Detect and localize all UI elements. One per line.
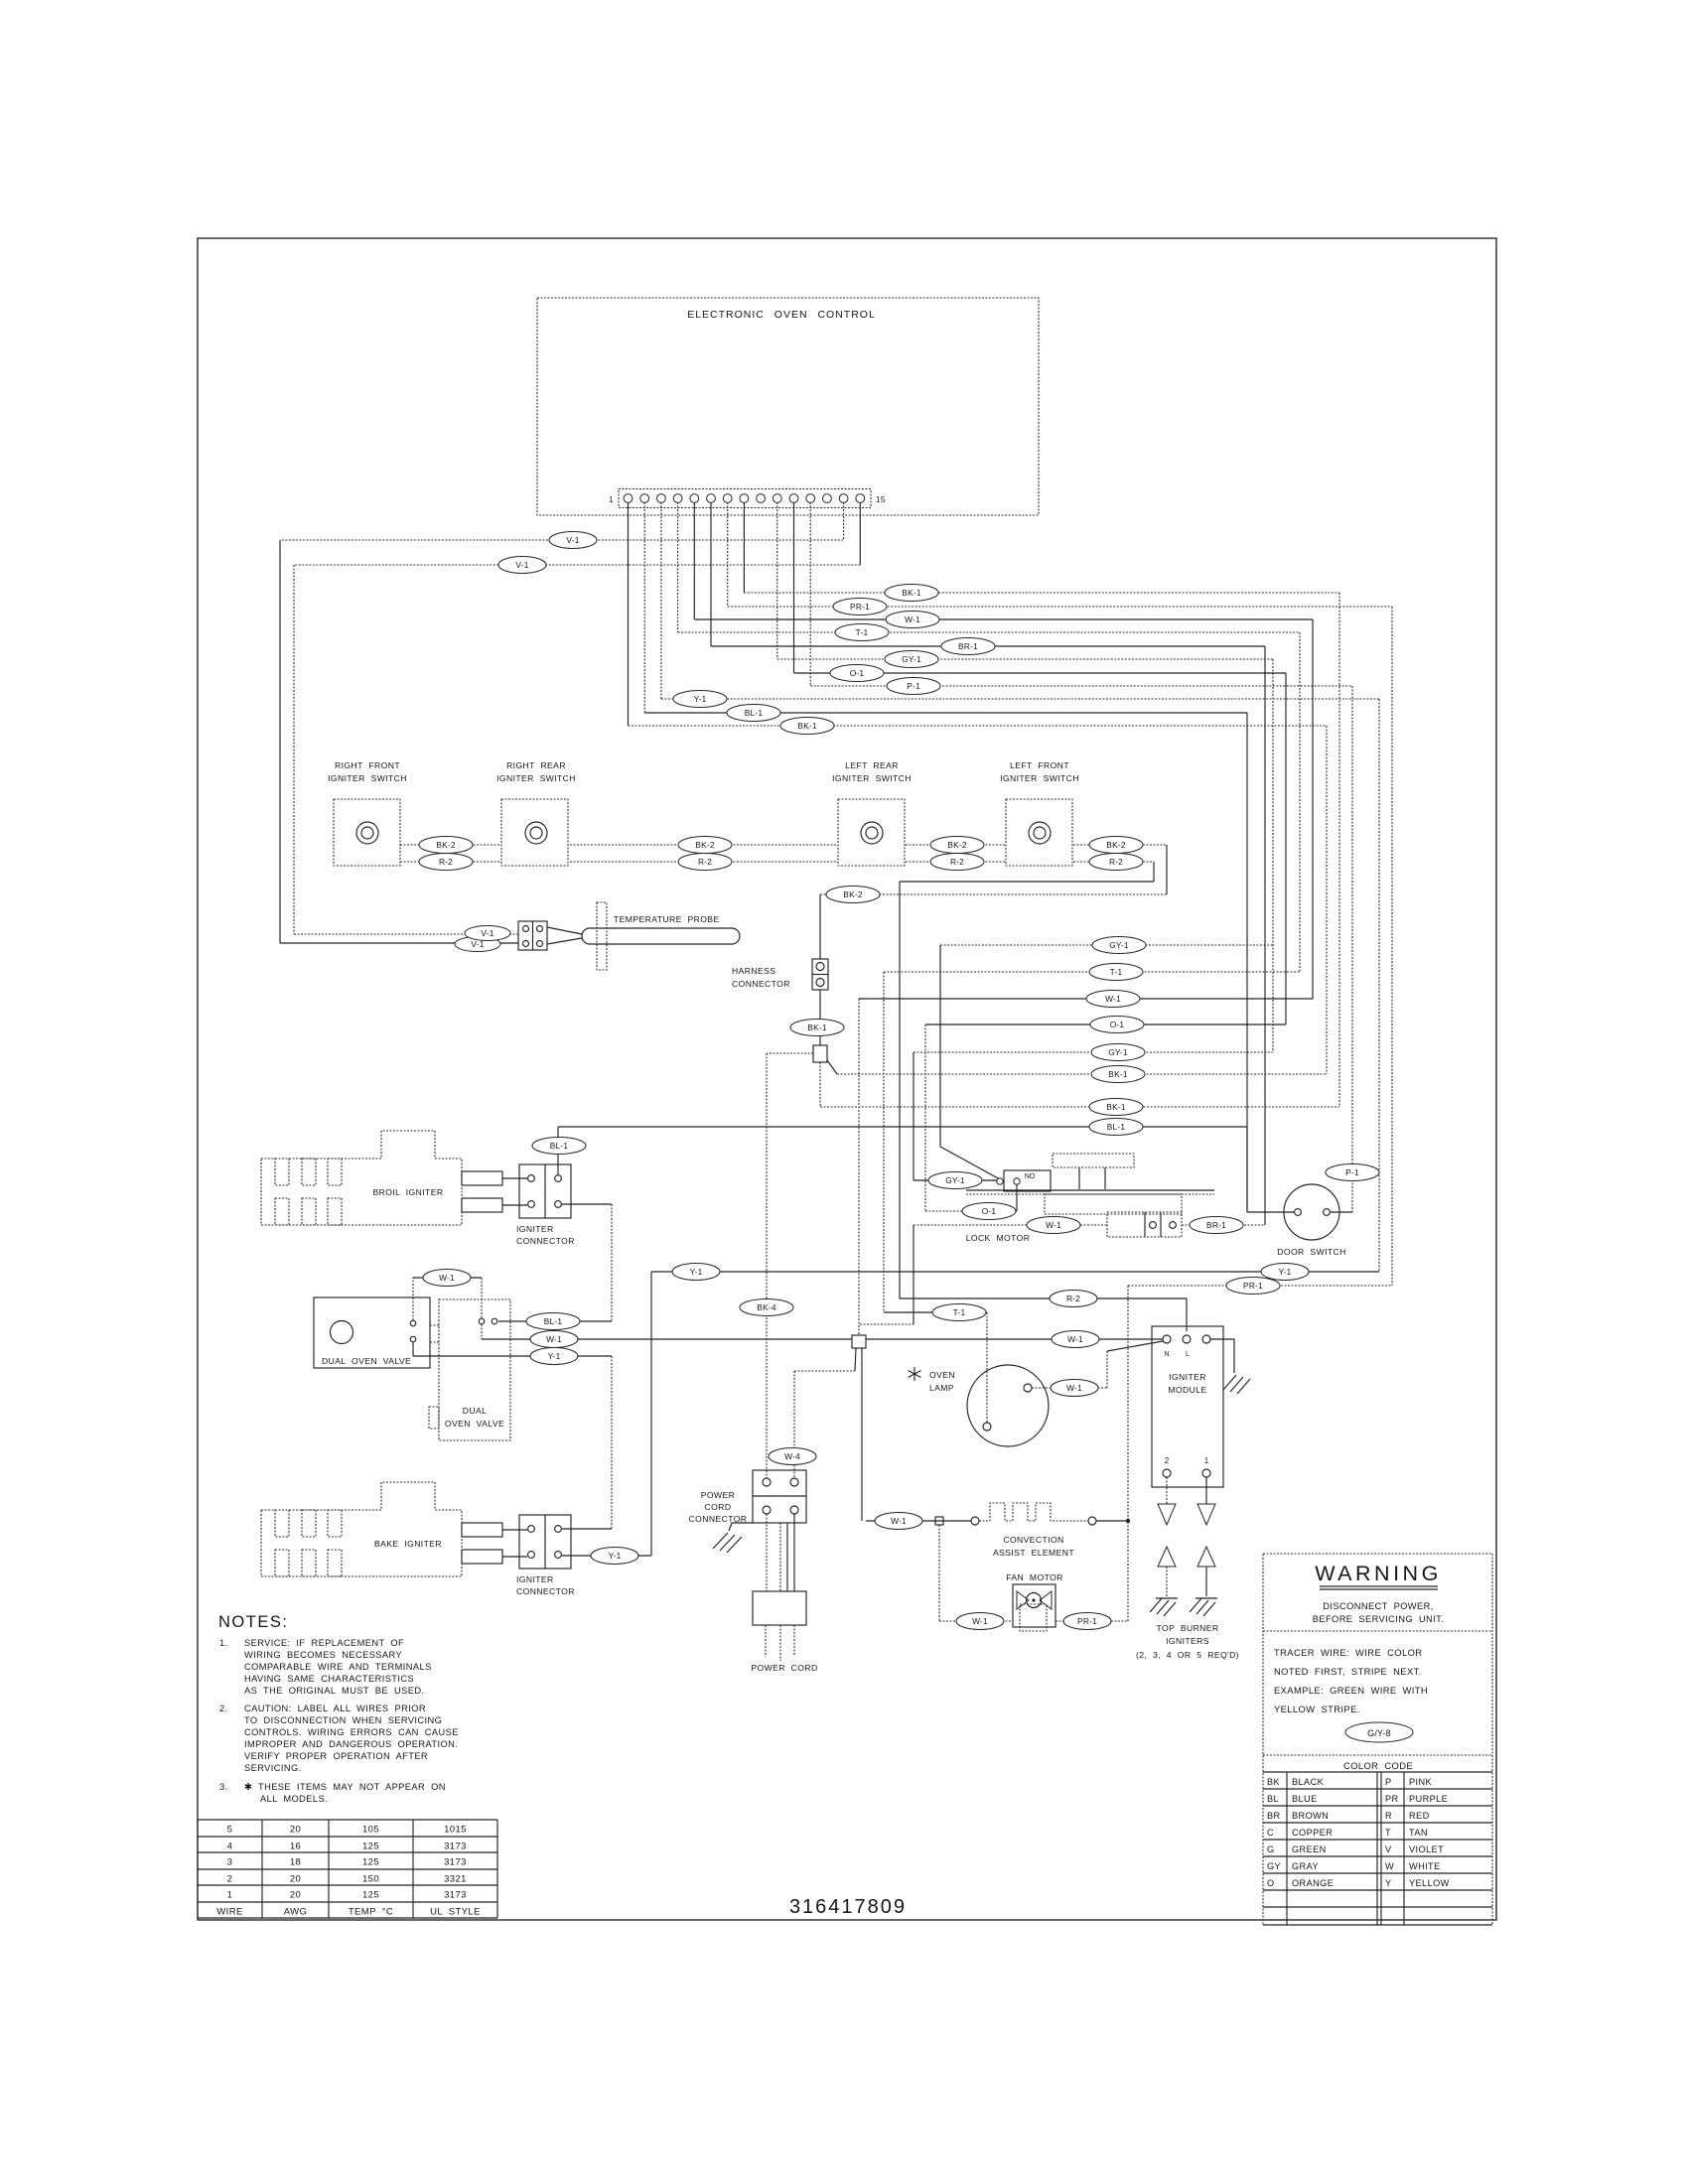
svg-text:POWER CORD: POWER CORD	[751, 1663, 817, 1673]
svg-text:BL-1: BL-1	[544, 1316, 563, 1326]
svg-text:TO DISCONNECTION WHEN SERVICIN: TO DISCONNECTION WHEN SERVICING	[244, 1715, 442, 1725]
svg-text:W-1: W-1	[891, 1516, 907, 1526]
wire O-1 to lock motor	[925, 1024, 1286, 1211]
svg-text:Y-1: Y-1	[1279, 1267, 1292, 1277]
svg-text:BK-2: BK-2	[843, 889, 863, 899]
svg-text:SERVICING.: SERVICING.	[244, 1763, 302, 1773]
svg-text:3173: 3173	[444, 1857, 467, 1868]
svg-text:BL-1: BL-1	[745, 708, 764, 718]
wire label R-2	[1089, 854, 1143, 871]
svg-text:BK-2: BK-2	[695, 840, 715, 850]
svg-text:PINK: PINK	[1409, 1777, 1433, 1787]
svg-text:IGNITER SWITCH: IGNITER SWITCH	[328, 773, 407, 783]
top burner igniters label	[1136, 1623, 1239, 1660]
svg-text:WHITE: WHITE	[1409, 1861, 1441, 1871]
wire BK-1 run from pin to right-side bus	[744, 593, 1339, 1107]
svg-text:OVEN VALVE: OVEN VALVE	[445, 1419, 504, 1429]
wire label R-2	[930, 854, 984, 871]
svg-text:WIRING BECOMES NECESSARY: WIRING BECOMES NECESSARY	[244, 1650, 402, 1660]
wire R-2 to igniter module L	[900, 1298, 1187, 1331]
svg-text:V-1: V-1	[481, 928, 493, 938]
power cord leads	[767, 1514, 794, 1591]
wire W-1 run from pin to right-side bus	[694, 619, 1313, 999]
warning box	[1263, 1554, 1492, 1925]
svg-text:G: G	[1267, 1844, 1275, 1854]
wire W-1 to fan motor	[935, 1517, 1013, 1621]
svg-text:BL-1: BL-1	[550, 1141, 569, 1151]
svg-text:IGNITER: IGNITER	[516, 1224, 554, 1234]
svg-text:20: 20	[290, 1825, 301, 1836]
svg-text:O: O	[1267, 1878, 1275, 1888]
svg-text:150: 150	[362, 1874, 379, 1885]
svg-text:P-1: P-1	[1345, 1167, 1359, 1177]
svg-text:W: W	[1385, 1861, 1394, 1871]
wire W-1 valve to junction block	[482, 1338, 852, 1340]
wire label W-1	[875, 1513, 922, 1530]
page border frame	[198, 238, 1496, 1920]
svg-text:105: 105	[362, 1825, 379, 1836]
svg-text:VERIFY PROPER OPERATION AFTER: VERIFY PROPER OPERATION AFTER	[244, 1751, 428, 1761]
igniter module U2	[1152, 1326, 1223, 1487]
svg-text:2.: 2.	[219, 1704, 228, 1713]
wire PR-1 run from pin to right-side bus	[728, 607, 1392, 1286]
wire label W-1	[1051, 1380, 1098, 1397]
chassis ground at power cord connector	[713, 1523, 753, 1553]
svg-text:PURPLE: PURPLE	[1409, 1794, 1448, 1804]
wire PR-1 fan motor	[1055, 1620, 1128, 1622]
wire label V-1	[498, 557, 546, 574]
wire BL-1 broil connector riser	[557, 1127, 559, 1174]
svg-text:BK-1: BK-1	[902, 588, 921, 598]
junction block below harness	[813, 1045, 827, 1062]
svg-text:R-2: R-2	[1109, 857, 1123, 867]
svg-text:CONNECTOR: CONNECTOR	[732, 979, 790, 989]
svg-text:3173: 3173	[444, 1890, 467, 1901]
svg-text:N: N	[1164, 1351, 1169, 1358]
svg-text:20: 20	[290, 1890, 301, 1901]
wire R-2 between igniter switches	[400, 862, 1154, 1298]
svg-text:CORD: CORD	[705, 1502, 732, 1512]
wire label W-1	[1027, 1217, 1080, 1234]
svg-text:T: T	[1385, 1828, 1391, 1838]
wire label BK-1	[1091, 1066, 1145, 1083]
svg-text:V: V	[1385, 1844, 1392, 1854]
wire label P-1	[887, 678, 940, 695]
wire label P-1	[1326, 1164, 1379, 1181]
svg-text:Y-1: Y-1	[609, 1551, 622, 1561]
svg-text:16: 16	[290, 1842, 301, 1852]
svg-text:O-1: O-1	[1110, 1020, 1125, 1029]
wire label W-1	[530, 1331, 578, 1348]
wire label W-1	[956, 1613, 1004, 1630]
svg-text:WARNING: WARNING	[1315, 1562, 1442, 1585]
wire GY-1 upper branch to lock motor NO contact	[940, 945, 1273, 1179]
svg-text:GY-1: GY-1	[945, 1175, 965, 1185]
svg-text:BK-1: BK-1	[1106, 1102, 1126, 1112]
wire BL-1 run from pin to right-side bus	[644, 713, 1247, 1212]
svg-text:W-4: W-4	[784, 1451, 800, 1461]
svg-text:BK-1: BK-1	[807, 1023, 827, 1032]
wire W-1 to junction block	[859, 999, 1313, 1335]
wire igniter module aux to chassis ground	[1210, 1339, 1250, 1394]
svg-text:2: 2	[227, 1874, 233, 1885]
temperature probe body	[547, 902, 740, 970]
svg-text:MODULE: MODULE	[1168, 1385, 1206, 1395]
top burner igniter arrows (output 2)	[1150, 1477, 1178, 1616]
svg-text:BR-1: BR-1	[958, 641, 978, 651]
svg-text:(2, 3, 4 OR 5 REQ'D): (2, 3, 4 OR 5 REQ'D)	[1136, 1650, 1239, 1660]
svg-text:W-1: W-1	[439, 1273, 455, 1283]
svg-text:RED: RED	[1409, 1811, 1430, 1821]
wire O-1 run from pin to right-side bus	[794, 673, 1287, 1024]
svg-text:20: 20	[290, 1874, 301, 1885]
svg-text:LEFT REAR: LEFT REAR	[845, 760, 899, 770]
svg-text:IGNITERS: IGNITERS	[1166, 1636, 1209, 1646]
svg-text:PR-1: PR-1	[1243, 1281, 1263, 1291]
wire BK-1 harness to right bus (upper)	[827, 1060, 1327, 1074]
svg-text:YELLOW STRIPE.: YELLOW STRIPE.	[1274, 1704, 1360, 1714]
wire label BR-1	[941, 638, 995, 655]
svg-text:3: 3	[227, 1857, 233, 1868]
svg-text:LEFT FRONT: LEFT FRONT	[1010, 760, 1069, 770]
wire GY-1 lower branch to lock motor	[914, 1052, 1273, 1180]
wire label O-1	[830, 665, 884, 682]
wire BR-1 lock motor to bus	[1182, 1224, 1265, 1226]
wire label BK-2	[826, 887, 880, 903]
dual oven valve (right, dotted)	[429, 1299, 510, 1440]
wire BK-1 harness to right bus (lower)	[820, 1062, 1339, 1107]
svg-text:WIRE: WIRE	[216, 1907, 242, 1918]
dual oven valve (left)	[314, 1297, 430, 1368]
svg-text:P: P	[1385, 1777, 1392, 1787]
wire label BK-1	[885, 585, 938, 602]
svg-text:1: 1	[227, 1890, 233, 1901]
wire label Y-1	[673, 691, 727, 708]
svg-text:NOTES:: NOTES:	[218, 1613, 288, 1631]
svg-text:IGNITER SWITCH: IGNITER SWITCH	[496, 773, 576, 783]
svg-text:BEFORE SERVICING UNIT.: BEFORE SERVICING UNIT.	[1313, 1614, 1444, 1624]
wire label V-1	[549, 532, 597, 549]
wire label Y-1	[672, 1264, 720, 1281]
wire label R-2	[419, 854, 473, 871]
wire Y-1 bake igniter to pin3	[562, 1272, 1379, 1556]
wire label BL-1	[727, 705, 780, 722]
wire label Y-1	[1261, 1264, 1309, 1281]
svg-text:W-1: W-1	[972, 1616, 988, 1626]
wire label BL-1	[1089, 1119, 1143, 1136]
electronic oven control box U1	[537, 298, 1039, 515]
wire W-4 to power cord connector	[794, 1371, 855, 1478]
wire BK-4 feed to power cord connector	[767, 1053, 813, 1478]
svg-text:RIGHT FRONT: RIGHT FRONT	[335, 760, 400, 770]
wire label BK-2	[930, 837, 984, 854]
svg-text:3173: 3173	[444, 1842, 467, 1852]
svg-text:DISCONNECT POWER,: DISCONNECT POWER,	[1323, 1601, 1433, 1611]
svg-text:O-1: O-1	[982, 1206, 997, 1216]
svg-text:BK-1: BK-1	[797, 721, 817, 731]
igniter connector J2 (bake)	[516, 1515, 575, 1596]
svg-text:15: 15	[876, 495, 886, 504]
svg-text:SERVICE: IF REPLACEMENT OF: SERVICE: IF REPLACEMENT OF	[244, 1638, 404, 1648]
svg-text:HAVING SAME CHARACTERISTICS: HAVING SAME CHARACTERISTICS	[244, 1674, 414, 1684]
svg-text:R: R	[1385, 1811, 1392, 1821]
svg-text:316417809: 316417809	[789, 1896, 907, 1918]
svg-text:3321: 3321	[444, 1874, 467, 1885]
wire GY-1 run from pin to right-side bus	[777, 659, 1273, 1052]
igniter switch S: RIGHT FRONT	[328, 760, 407, 866]
wire W-1 valve loop with switch contacts	[413, 1278, 497, 1339]
svg-text:O-1: O-1	[850, 668, 865, 678]
svg-text:P-1: P-1	[907, 681, 920, 691]
svg-text:PR-1: PR-1	[850, 602, 870, 612]
wire label V-1	[455, 937, 500, 952]
svg-text:125: 125	[362, 1857, 379, 1868]
igniter switch S: RIGHT REAR	[496, 760, 576, 866]
wire V-1 from pin 15 to temperature probe	[294, 565, 860, 934]
svg-text:ALL MODELS.: ALL MODELS.	[260, 1794, 328, 1804]
svg-text:BAKE IGNITER: BAKE IGNITER	[374, 1539, 442, 1549]
wire V-1 from pin 14 to temperature probe	[280, 540, 843, 943]
wire W-1 into lock motor	[860, 1225, 1107, 1324]
svg-text:BK-2: BK-2	[1106, 840, 1126, 850]
wire label BK-1	[1089, 1099, 1143, 1116]
svg-text:PR: PR	[1385, 1794, 1399, 1804]
igniter switch S: LEFT REAR	[832, 760, 912, 866]
svg-text:BLACK: BLACK	[1292, 1777, 1325, 1787]
svg-text:NOTED FIRST, STRIPE NEXT.: NOTED FIRST, STRIPE NEXT.	[1274, 1666, 1422, 1677]
svg-text:3.: 3.	[219, 1782, 228, 1792]
svg-text:COMPARABLE WIRE AND TERMINALS: COMPARABLE WIRE AND TERMINALS	[244, 1662, 432, 1672]
svg-text:BROIL IGNITER: BROIL IGNITER	[373, 1187, 444, 1197]
svg-text:GY-1: GY-1	[1109, 940, 1129, 950]
svg-text:1: 1	[609, 495, 614, 504]
wire BK-1 below harness connector	[819, 990, 821, 1045]
svg-text:BK-4: BK-4	[757, 1302, 776, 1312]
svg-text:1: 1	[1204, 1456, 1209, 1465]
svg-text:T-1: T-1	[1110, 967, 1123, 977]
svg-text:LAMP: LAMP	[929, 1383, 954, 1393]
svg-text:BLUE: BLUE	[1292, 1794, 1318, 1804]
svg-text:V-1: V-1	[515, 560, 528, 570]
svg-text:CONNECTOR: CONNECTOR	[516, 1236, 575, 1246]
svg-text:GY-1: GY-1	[902, 654, 921, 664]
wire label PR-1	[1226, 1278, 1280, 1295]
svg-text:BR: BR	[1267, 1811, 1281, 1821]
svg-text:R-2: R-2	[950, 857, 964, 867]
svg-text:Y: Y	[1385, 1878, 1392, 1888]
junction block (W-1 splice)	[852, 1335, 866, 1521]
svg-text:PR-1: PR-1	[1077, 1616, 1097, 1626]
wire label T-1	[1089, 964, 1143, 981]
door switch	[1277, 1184, 1352, 1257]
svg-text:Y-1: Y-1	[694, 694, 707, 704]
tracer wire example oval G/Y-8	[1345, 1722, 1413, 1742]
svg-text:BK-2: BK-2	[436, 840, 456, 850]
oven lamp	[909, 1365, 1050, 1446]
wire PR-1 fan motor to pin7	[1128, 1286, 1392, 1621]
svg-text:OVEN: OVEN	[929, 1370, 955, 1380]
fan motor M1	[1006, 1572, 1063, 1631]
svg-text:W-1: W-1	[1067, 1334, 1083, 1344]
svg-text:ORANGE: ORANGE	[1292, 1878, 1334, 1888]
svg-text:IGNITER SWITCH: IGNITER SWITCH	[832, 773, 912, 783]
svg-text:IGNITER: IGNITER	[516, 1574, 554, 1584]
wire label R-2	[1050, 1291, 1097, 1307]
svg-text:R-2: R-2	[439, 857, 453, 867]
wire label BL-1	[526, 1313, 580, 1330]
svg-text:DUAL: DUAL	[463, 1406, 488, 1416]
wire Y-1 valve to bake connector	[413, 1342, 612, 1529]
svg-text:ELECTRONIC OVEN CONTROL: ELECTRONIC OVEN CONTROL	[687, 309, 876, 321]
wire label BL-1	[532, 1138, 586, 1155]
svg-text:CONTROLS. WIRING ERRORS CAN: CONTROLS. WIRING ERRORS CAN CAUSE	[244, 1727, 459, 1737]
lock motor assembly	[966, 1154, 1214, 1243]
broil igniter E1	[261, 1131, 527, 1225]
svg-text:VIOLET: VIOLET	[1409, 1844, 1444, 1854]
wire pin drops from terminal strip	[629, 502, 861, 726]
wire label BK-1	[790, 1020, 844, 1036]
svg-text:C: C	[1267, 1828, 1274, 1838]
wire label GY-1	[1092, 937, 1146, 954]
svg-text:NO: NO	[1025, 1173, 1036, 1180]
wire gauge table	[198, 1820, 497, 1918]
svg-text:TEMPERATURE PROBE: TEMPERATURE PROBE	[614, 914, 720, 924]
temperature probe connector	[518, 921, 547, 950]
svg-text:W-1: W-1	[1105, 994, 1121, 1004]
wire label O-1	[962, 1203, 1016, 1220]
svg-text:✱ THESE ITEMS MAY NOT APPEAR O: ✱ THESE ITEMS MAY NOT APPEAR ON	[244, 1782, 446, 1792]
top burner igniter arrows (output 1)	[1190, 1477, 1217, 1616]
svg-text:AWG: AWG	[284, 1907, 308, 1918]
wire label W-1	[1086, 991, 1140, 1008]
wire label PR-1	[1063, 1613, 1111, 1630]
svg-text:EXAMPLE: GREEN WIRE WITH: EXAMPLE: GREEN WIRE WITH	[1274, 1685, 1428, 1696]
power cord plug	[751, 1591, 817, 1673]
svg-text:1015: 1015	[444, 1825, 467, 1836]
notes text block	[218, 1613, 459, 1804]
wire BR-1 run from pin to right-side bus	[711, 646, 1265, 1225]
wire label BK-4	[740, 1299, 793, 1316]
power cord connector	[689, 1470, 806, 1524]
svg-text:Y-1: Y-1	[548, 1351, 561, 1361]
wire label Y-1	[530, 1348, 578, 1365]
color code table	[1263, 1755, 1492, 1925]
wire label T-1	[932, 1304, 986, 1321]
igniter switch S: LEFT FRONT	[1000, 760, 1079, 866]
wire label BK-2	[419, 837, 473, 854]
svg-text:IGNITER SWITCH: IGNITER SWITCH	[1000, 773, 1079, 783]
convection assist element R1	[866, 1503, 1130, 1558]
svg-text:TEMP °C: TEMP °C	[349, 1907, 393, 1918]
svg-text:T-1: T-1	[953, 1307, 966, 1317]
wire label PR-1	[833, 599, 887, 615]
svg-text:125: 125	[362, 1842, 379, 1852]
svg-text:ASSIST ELEMENT: ASSIST ELEMENT	[993, 1548, 1074, 1558]
svg-text:TOP BURNER: TOP BURNER	[1156, 1623, 1218, 1633]
wire broil connector to valve switch	[498, 1204, 612, 1321]
igniter connector J1 (broil)	[516, 1164, 575, 1246]
svg-text:CAUTION: LABEL ALL WIRES PRI: CAUTION: LABEL ALL WIRES PRIOR	[244, 1704, 426, 1713]
svg-text:L: L	[1186, 1351, 1190, 1358]
wire label W-1	[1052, 1331, 1099, 1348]
wire label GY-1	[1091, 1044, 1145, 1061]
svg-text:IGNITER: IGNITER	[1169, 1372, 1206, 1382]
wire label GY-1	[885, 651, 938, 668]
svg-text:BK-1: BK-1	[1108, 1069, 1128, 1079]
svg-text:DUAL OVEN VALVE: DUAL OVEN VALVE	[322, 1356, 411, 1366]
svg-text:BK: BK	[1267, 1777, 1281, 1787]
wire label V-1	[465, 926, 510, 941]
svg-text:TAN: TAN	[1409, 1828, 1428, 1838]
svg-text:GY-1: GY-1	[1108, 1047, 1128, 1057]
wire label W-1	[423, 1270, 471, 1287]
svg-text:W-1: W-1	[905, 614, 920, 624]
wire label BK-2	[1089, 837, 1143, 854]
wire label O-1	[1090, 1017, 1144, 1033]
wire T-1 to oven lamp	[884, 972, 1300, 1423]
svg-text:AS THE ORIGINAL MUST BE USED.: AS THE ORIGINAL MUST BE USED.	[244, 1686, 424, 1696]
svg-text:FAN MOTOR: FAN MOTOR	[1006, 1572, 1063, 1582]
svg-text:UL STYLE: UL STYLE	[430, 1907, 481, 1918]
svg-text:R-2: R-2	[698, 857, 712, 867]
svg-text:W-1: W-1	[1046, 1220, 1061, 1230]
wire T-1 run from pin to right-side bus	[678, 632, 1300, 972]
svg-text:GRAY: GRAY	[1292, 1861, 1319, 1871]
svg-text:TRACER WIRE: WIRE COLOR: TRACER WIRE: WIRE COLOR	[1274, 1647, 1422, 1658]
svg-text:W-1: W-1	[546, 1334, 562, 1344]
svg-text:CONVECTION: CONVECTION	[1003, 1535, 1063, 1545]
svg-text:G/Y-8: G/Y-8	[1367, 1728, 1391, 1738]
wire W-1 junction to igniter module N	[866, 1338, 1163, 1340]
svg-text:V-1: V-1	[566, 535, 579, 545]
wire label BK-1	[780, 718, 834, 735]
svg-text:T-1: T-1	[856, 627, 869, 637]
wire Y-1 run from pin to right-side bus	[661, 699, 1379, 1272]
wire label BK-2	[678, 837, 732, 854]
wire label W-4	[769, 1448, 816, 1465]
svg-text:BR-1: BR-1	[1206, 1220, 1226, 1230]
wire label Y-1	[591, 1548, 638, 1565]
wire P-1 run from pin to right-side bus	[810, 686, 1352, 1212]
svg-text:GY: GY	[1267, 1861, 1281, 1871]
svg-text:COPPER: COPPER	[1292, 1828, 1333, 1838]
wire W-1 oven lamp to igniter module N	[1032, 1341, 1163, 1388]
wire label T-1	[835, 624, 889, 641]
svg-text:125: 125	[362, 1890, 379, 1901]
svg-text:R-2: R-2	[1066, 1294, 1080, 1303]
svg-text:LOCK MOTOR: LOCK MOTOR	[966, 1233, 1031, 1243]
svg-text:HARNESS: HARNESS	[732, 966, 775, 976]
svg-text:1.: 1.	[219, 1638, 228, 1648]
wire label GY-1	[928, 1172, 982, 1189]
part number 316417809	[789, 1896, 907, 1918]
wire label W-1	[886, 612, 939, 628]
svg-text:W-1: W-1	[1066, 1383, 1082, 1393]
harness connector	[732, 959, 828, 990]
wire BK-2 between igniter switches	[400, 845, 1167, 959]
svg-text:CONNECTOR: CONNECTOR	[516, 1586, 575, 1596]
svg-text:COLOR CODE: COLOR CODE	[1343, 1760, 1413, 1771]
svg-text:IMPROPER AND DANGEROUS OPERATI: IMPROPER AND DANGEROUS OPERATION.	[244, 1739, 458, 1749]
wire BK-1 run from pin to right-side bus	[629, 726, 1328, 1074]
svg-text:Y-1: Y-1	[690, 1267, 703, 1277]
svg-text:2: 2	[1165, 1456, 1170, 1465]
svg-text:DOOR SWITCH: DOOR SWITCH	[1277, 1247, 1345, 1257]
svg-text:GREEN: GREEN	[1292, 1844, 1327, 1854]
terminal strip P1 pins 1-15	[609, 489, 886, 508]
svg-text:5: 5	[227, 1825, 233, 1836]
svg-text:POWER: POWER	[701, 1490, 735, 1500]
